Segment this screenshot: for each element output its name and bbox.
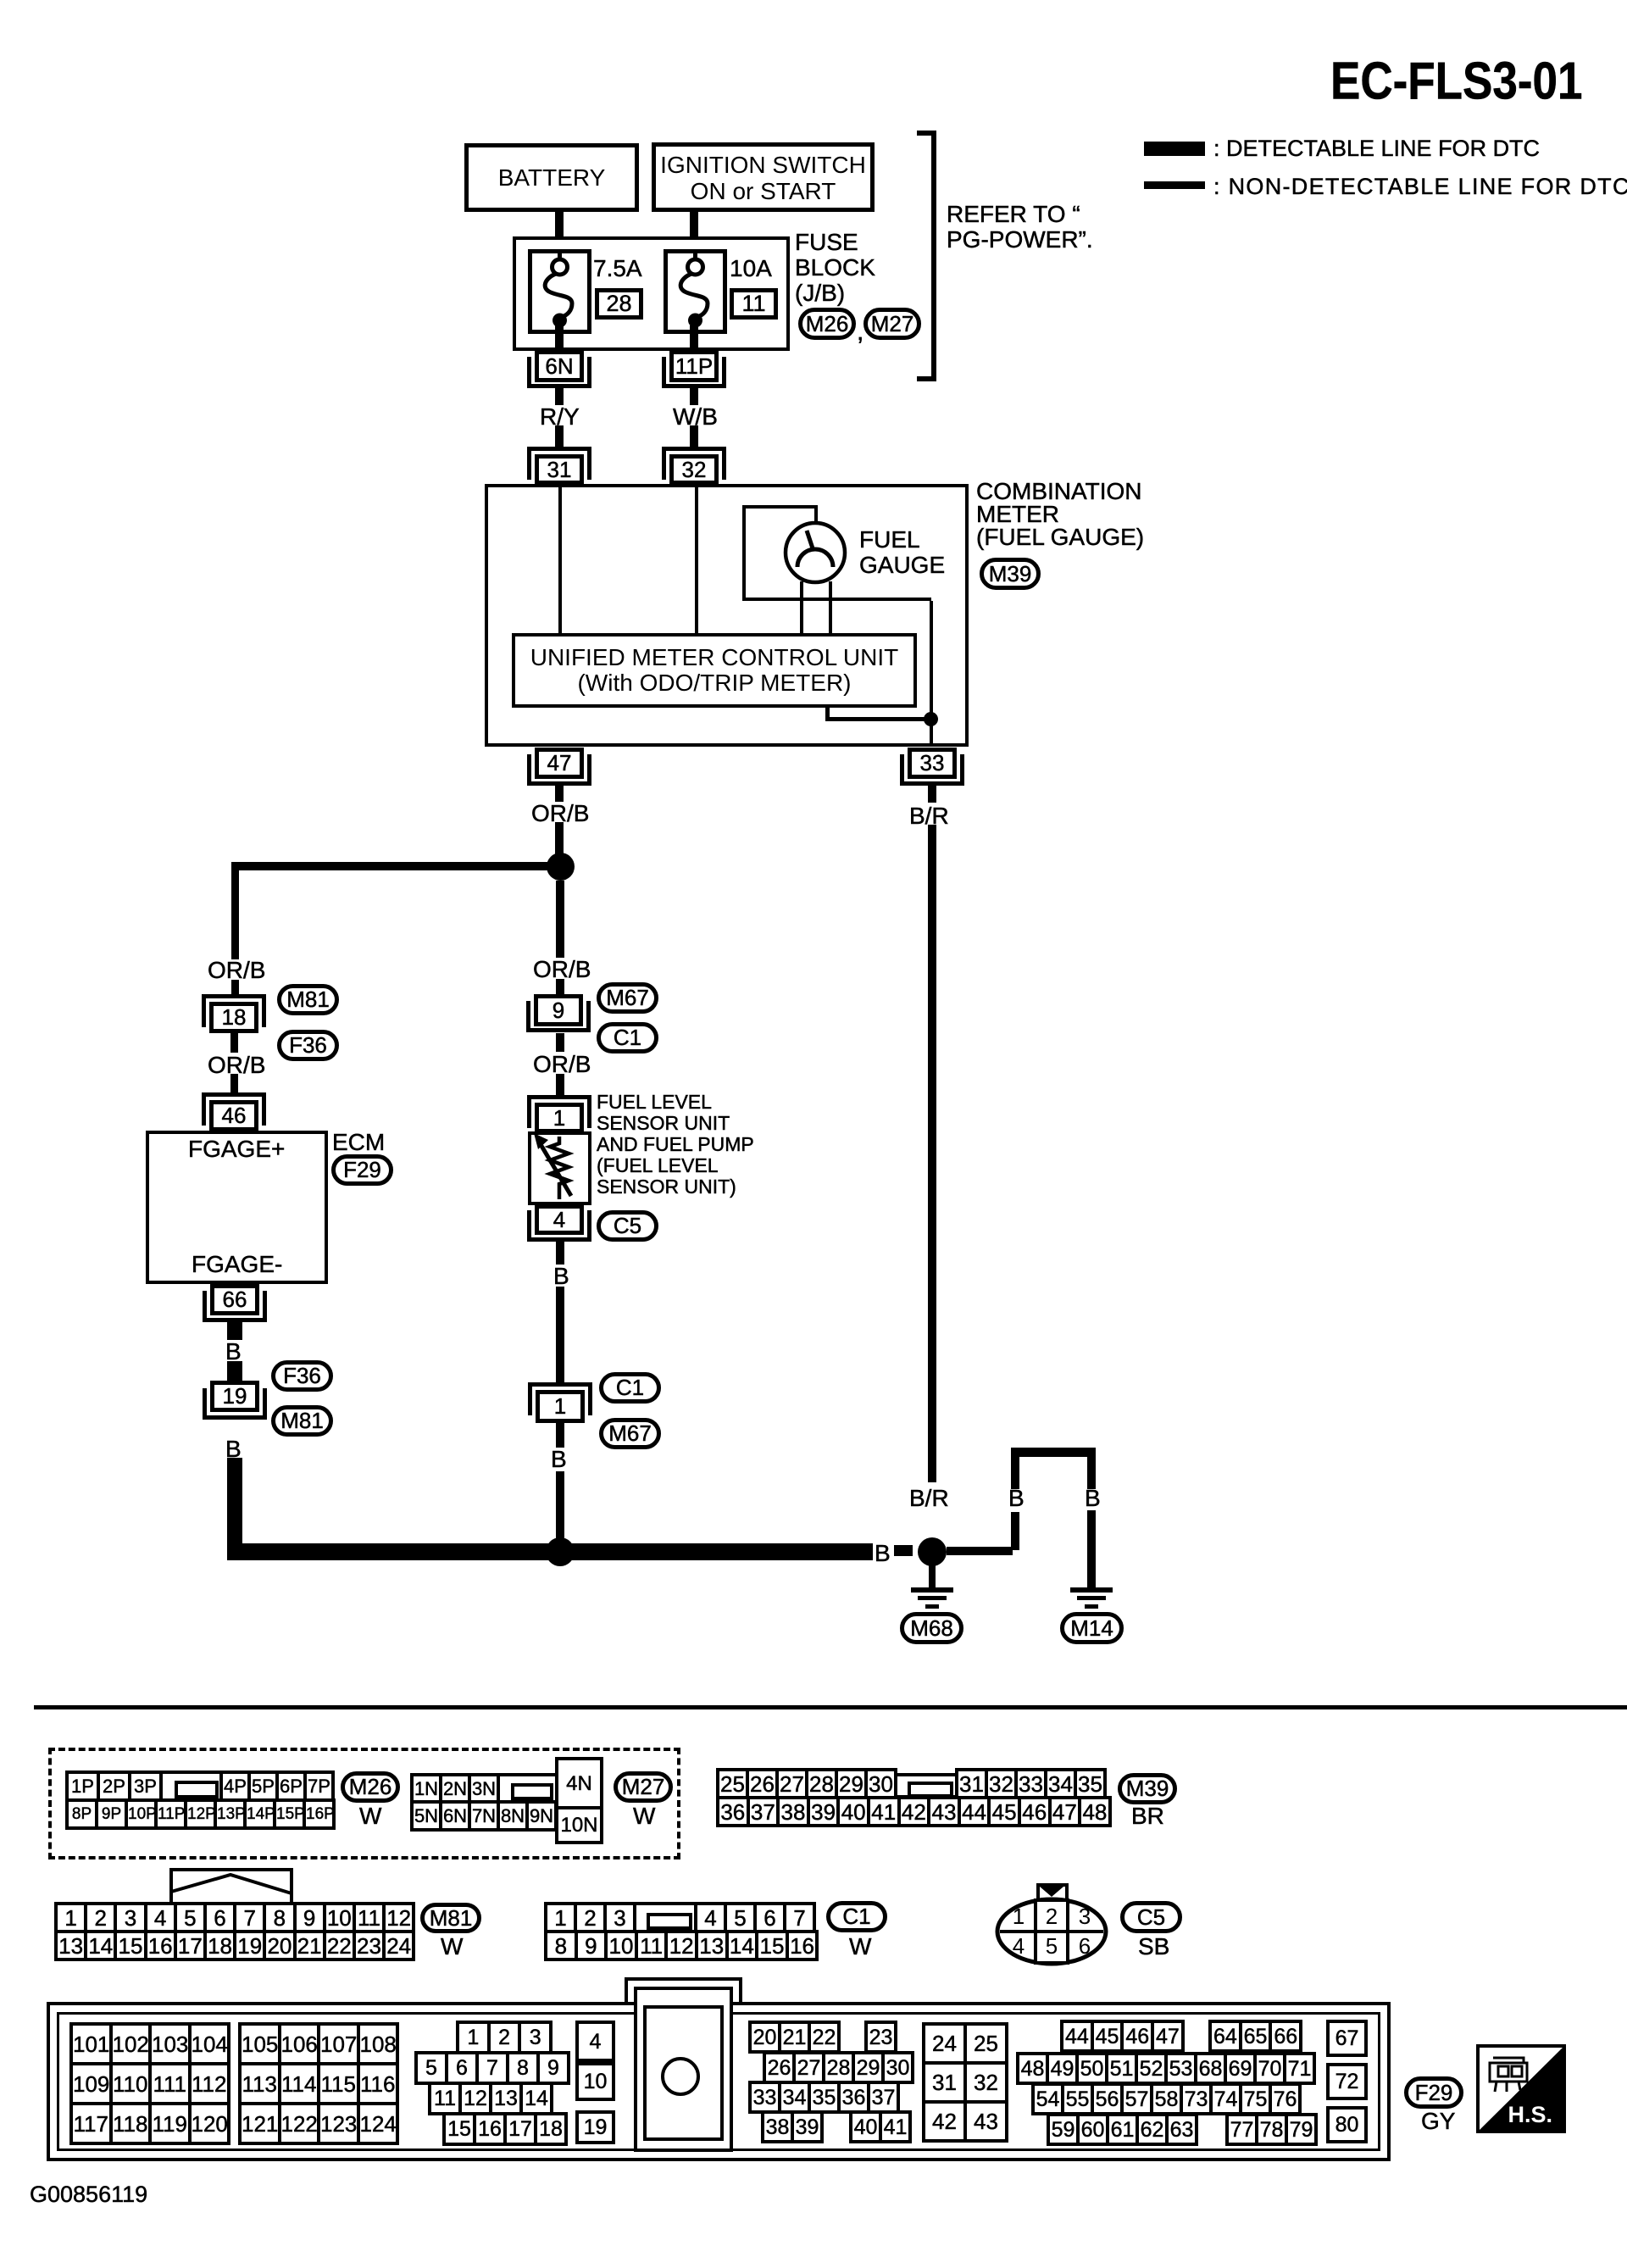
connector 47 pin box <box>535 748 584 779</box>
wire 47 lead <box>555 786 564 802</box>
connector 11P pin box <box>669 350 719 382</box>
connector label F29 face label <box>1404 2076 1463 2109</box>
pins F29 pins 31-32 <box>922 2061 1008 2104</box>
svg-text:5: 5 <box>1046 1933 1058 1959</box>
connector 32 housing bracket <box>662 447 726 451</box>
pins C1 row1 left <box>544 1902 636 1933</box>
fuse element symbol <box>528 249 591 334</box>
fuse 11 box <box>664 249 727 334</box>
legend non-detectable <box>1213 175 1627 199</box>
pins C1 row1 right <box>694 1902 816 1933</box>
pins F29 pin 23 <box>864 2021 897 2054</box>
svg-text:H.S.: H.S. <box>1508 2102 1552 2127</box>
svg-text:1: 1 <box>1013 1904 1025 1929</box>
wire left to 18 <box>231 980 239 995</box>
connector 18 pin box <box>209 1002 258 1033</box>
pins M27 10N cell <box>555 1806 603 1844</box>
wire color B M14 leg <box>1085 1486 1101 1511</box>
wire B to bus mid <box>556 1471 564 1543</box>
pins F29 pins 11-14 <box>428 2082 553 2115</box>
pins F29 pins 1-3 <box>456 2021 553 2054</box>
wire B to 1 mid <box>556 1287 564 1382</box>
pins M26 row1 right <box>219 1770 335 1802</box>
C5 color SB <box>1138 1934 1169 1959</box>
wire color B/R at junction <box>909 1486 949 1511</box>
connector label F36 near 18 <box>277 1030 339 1061</box>
pins M39 row1 left <box>716 1768 897 1799</box>
label FUEL GAUGE <box>859 527 945 578</box>
pins F29 group2 row1 <box>238 2022 399 2065</box>
pins M26 row2 <box>65 1798 336 1830</box>
connector 9 housing bracket <box>526 1001 530 1032</box>
connector label M27 face label <box>614 1771 673 1803</box>
wire color B right leg <box>1008 1486 1025 1511</box>
F29 bolt housing <box>634 1987 733 2152</box>
note REFER TO PG-POWER <box>947 202 1093 253</box>
svg-text:4: 4 <box>1013 1933 1025 1959</box>
wire OR/B to 9 <box>556 979 564 994</box>
connector label M67 near 1 <box>599 1418 661 1449</box>
pins F29 pins 38-39 <box>761 2110 824 2143</box>
pins F29 pins 5-9 <box>414 2051 570 2085</box>
wire bus stub to B/R junction <box>894 1545 913 1556</box>
connector 19 pin box <box>210 1381 259 1412</box>
connector 46 pin box <box>209 1100 258 1131</box>
pins F29 pins 44-47 <box>1060 2020 1185 2053</box>
wire color OR/B mid 1 <box>533 957 591 982</box>
connector label C1 near 1 <box>599 1372 661 1404</box>
pins F29 pins 48-71 <box>1016 2052 1316 2085</box>
fuel gauge enclosure lines <box>742 505 818 509</box>
wire M14 leg upper <box>1087 1457 1096 1489</box>
legend thin line sample <box>1144 181 1205 189</box>
M39 keyway cell <box>894 1773 958 1798</box>
pins F29 group2 row3 <box>238 2102 399 2145</box>
connector fuse number 11 pin box <box>730 288 778 320</box>
pins F29 pin 4 <box>575 2021 615 2062</box>
ignition switch box <box>652 142 875 212</box>
wire right leg up upper <box>1011 1448 1019 1489</box>
connector 32 pin box <box>669 454 719 485</box>
connector label C5 face label <box>1120 1901 1182 1933</box>
ground symbol M14 <box>1070 1587 1113 1593</box>
connector label M67 near 9 <box>597 982 658 1014</box>
wire gauge lead right <box>829 581 832 633</box>
pins M27 row1 <box>410 1773 500 1804</box>
wire color OR/B left 1 <box>208 958 265 983</box>
pins M39 row1 right <box>955 1768 1107 1799</box>
connector 66 pin box <box>210 1284 259 1315</box>
wire 33 lead <box>928 786 936 803</box>
connector label M81 near 18 <box>277 984 339 1015</box>
svg-text:3: 3 <box>1079 1904 1091 1929</box>
pins F29 pins 77-79 <box>1225 2113 1318 2146</box>
pins F29 pins 64-66 <box>1208 2020 1302 2053</box>
wire junction to M68 ground <box>929 1565 936 1587</box>
separator line <box>34 1705 1627 1709</box>
F29 bolt housing inner <box>643 2005 724 2141</box>
pins M27 4N cell <box>555 1757 603 1809</box>
title EC-FLS3-01 <box>1330 58 1582 106</box>
M81 color W <box>441 1934 463 1959</box>
label COMBINATION METER <box>976 480 1144 548</box>
wire OR/B to junction <box>555 822 564 861</box>
connector 4 sensor housing bracket <box>527 1210 531 1242</box>
combination meter box <box>485 484 969 747</box>
connector 31 housing bracket <box>527 447 591 451</box>
legend thick line sample <box>1144 142 1205 156</box>
wire 9 to OR/B <box>556 1033 564 1052</box>
ECM box <box>146 1131 328 1284</box>
wire color B/R under 33 <box>909 803 949 829</box>
C1 keyway cell <box>633 1902 697 1933</box>
ground symbol M68 <box>911 1587 953 1593</box>
wire B to 19 thick <box>227 1361 242 1381</box>
connector 11P housing bracket <box>662 357 666 388</box>
wire color OR/B under 47 <box>531 801 589 826</box>
wire 4 to B <box>556 1242 564 1265</box>
connector label M14 <box>1060 1612 1124 1644</box>
fuse element symbol <box>664 249 727 334</box>
pins F29 pins 24-25 <box>922 2022 1008 2065</box>
wire 6N to R/Y <box>555 388 564 405</box>
label FUSE BLOCK (J/B) <box>795 230 875 306</box>
wire battery to fuse <box>555 208 564 257</box>
fuel gauge meter symbol <box>782 520 848 586</box>
pins M81 row1 <box>54 1902 415 1933</box>
wire ignition to fuse <box>690 208 698 257</box>
wire gauge lead left <box>800 581 803 633</box>
connector label F36 near 19 <box>271 1360 333 1392</box>
pins F29 pin 19 <box>575 2110 615 2144</box>
wire meter internal to 33 <box>930 601 933 747</box>
F29 outer box <box>47 2002 1391 2161</box>
wire fuse 28 output <box>555 325 564 350</box>
connector 1 mid pin box <box>536 1390 585 1423</box>
connector label M39 face label <box>1118 1773 1177 1804</box>
M26 color W <box>359 1804 381 1829</box>
F29 color GY <box>1421 2109 1455 2134</box>
connector label M39 <box>980 558 1041 590</box>
wire color OR/B mid 2 <box>533 1052 591 1077</box>
pin name FGAGE- <box>192 1252 282 1277</box>
wire color R/Y <box>540 404 580 430</box>
connector 47 housing bracket <box>527 754 531 786</box>
pins F29 group1 row2 <box>69 2062 230 2105</box>
pins C1 row2 <box>544 1930 819 1961</box>
fuse block J/B box <box>513 236 790 351</box>
pins F29 pins 42-43 <box>922 2100 1008 2143</box>
connector 33 pin box <box>908 748 957 779</box>
pins F29 pins 26-30 <box>763 2051 914 2084</box>
label FUEL LEVEL SENSOR UNIT <box>597 1092 754 1198</box>
pin name FGAGE+ <box>188 1137 285 1162</box>
pins F29 pins 54-76 <box>1031 2082 1302 2115</box>
pins M27 row2 <box>410 1800 558 1832</box>
connector 1 sensor pin box <box>535 1103 584 1133</box>
pins M81 row2 <box>54 1930 415 1961</box>
F29 top tab <box>625 1977 742 2005</box>
C5 face (oval connector) <box>993 1882 1110 1966</box>
fuse rating 10A <box>730 256 772 281</box>
connector label F29 near ECM <box>331 1154 393 1186</box>
wire color B mid 2 <box>551 1447 567 1472</box>
connector 46 housing bracket <box>202 1092 266 1097</box>
wire B/R down <box>928 825 936 1482</box>
connector label M27 <box>863 308 921 340</box>
connector 9 pin box <box>534 994 583 1026</box>
pins F29 group1 row1 <box>69 2022 230 2065</box>
wire color B left 1 <box>225 1339 242 1365</box>
wire meter internal from 32 <box>695 487 698 633</box>
pins F29 pins 33-37 <box>748 2081 900 2114</box>
pins F29 pin 80 <box>1326 2106 1368 2143</box>
connector 19 housing bracket <box>203 1388 207 1420</box>
pins F29 pins 59-63 <box>1047 2113 1198 2146</box>
junction node bus <box>546 1537 575 1566</box>
wire OR/B to 46 <box>230 1074 238 1093</box>
wire umcu out right <box>825 717 933 721</box>
connector 4 sensor pin box <box>535 1204 584 1235</box>
F29 inner box <box>57 2012 1380 2151</box>
M39 color BR <box>1131 1804 1164 1829</box>
wire color W/B <box>673 404 718 430</box>
connector 66 housing bracket <box>203 1291 207 1322</box>
H.S. badge <box>1476 2044 1566 2133</box>
connector 6N housing bracket <box>527 357 531 388</box>
wire B down to bus thick <box>227 1458 242 1543</box>
unified meter control unit box <box>512 633 917 708</box>
fuse rating 7.5A <box>593 256 642 281</box>
junction node B/R ground <box>918 1537 947 1566</box>
wire right leg up lower <box>1011 1512 1019 1550</box>
fuel level sensor box <box>528 1131 591 1205</box>
connector 1 mid housing bracket <box>528 1382 592 1387</box>
comma between M26 M27 <box>857 319 863 346</box>
wire OR/B to 1 <box>556 1074 564 1096</box>
label ECM <box>332 1130 385 1155</box>
refer-to bracket <box>931 131 936 381</box>
C1 color W <box>849 1934 871 1959</box>
wire left branch down <box>231 862 239 959</box>
wire 11P to W/B <box>690 388 698 405</box>
wire fuse 11 output <box>690 325 698 350</box>
wire M14 leg lower <box>1087 1510 1096 1588</box>
M27 keyway cell <box>497 1773 558 1804</box>
pins F29 pins 40-41 <box>849 2110 912 2143</box>
connector 33 housing bracket <box>900 754 904 786</box>
figure number G00856119 <box>30 2182 147 2207</box>
pins F29 group2 row2 <box>238 2062 399 2105</box>
wire ground bus thick <box>227 1543 873 1560</box>
wire junction horizontal to left <box>231 862 563 870</box>
connector label C1 face label <box>826 1901 887 1932</box>
connector label C5 near 4 <box>597 1210 658 1242</box>
legend detectable <box>1213 136 1540 161</box>
wire color OR/B left 2 <box>208 1053 265 1078</box>
pins M39 row2 <box>716 1796 1112 1827</box>
wire umcu out down <box>825 708 830 719</box>
pins F29 pins 15-18 <box>442 2112 568 2146</box>
pins F29 pins 20-22 <box>748 2021 841 2054</box>
pins F29 pin 10 <box>575 2062 615 2101</box>
wire 66 to B thick <box>227 1322 242 1340</box>
connector 1 sensor housing bracket <box>527 1095 591 1099</box>
wire W/B to 32 <box>690 425 698 447</box>
wire top bar to M14 <box>1011 1448 1096 1457</box>
pins M26 row1 left <box>65 1770 163 1802</box>
wire meter internal from 31 <box>558 487 562 633</box>
wire R/Y to 31 <box>555 425 564 447</box>
connector label M81 near 19 <box>271 1405 333 1437</box>
connector fuse number 28 pin box <box>595 288 643 320</box>
pins F29 pin 72 <box>1326 2063 1368 2100</box>
dashed group box M26 M27 <box>48 1748 680 1859</box>
wire color B left 2 <box>225 1437 242 1462</box>
wire 1 to B mid <box>556 1423 564 1448</box>
connector 18 housing bracket <box>202 994 266 998</box>
pins F29 group1 row3 <box>69 2102 230 2145</box>
connector 31 pin box <box>535 454 584 485</box>
svg-text:2: 2 <box>1046 1904 1058 1929</box>
wire color B bus right <box>875 1541 891 1566</box>
junction dot inside meter <box>924 712 938 726</box>
connector label M68 <box>900 1612 963 1644</box>
M81 latch tab <box>169 1868 293 1905</box>
pins F29 pin 67 <box>1326 2020 1368 2057</box>
wire color B mid 1 <box>553 1264 569 1289</box>
connector label M81 face label <box>420 1903 481 1933</box>
wire junction right stub <box>947 1547 1013 1555</box>
connector label M26 face label <box>341 1771 400 1803</box>
M26 keyway cell <box>159 1770 224 1802</box>
connector label C1 near 9 <box>597 1022 658 1053</box>
wire 18 to OR/B <box>230 1033 238 1053</box>
variable resistor symbol <box>528 1131 591 1205</box>
svg-text:6: 6 <box>1079 1933 1091 1959</box>
fuse 28 box <box>528 249 591 334</box>
connector label M26 <box>798 308 856 340</box>
junction node OR/B <box>547 853 575 881</box>
battery box <box>464 143 639 212</box>
F29 bolt circle <box>660 2056 701 2097</box>
connector 6N pin box <box>535 350 584 382</box>
wire junction to OR/B mid <box>556 881 564 958</box>
M27 color W <box>633 1804 655 1829</box>
